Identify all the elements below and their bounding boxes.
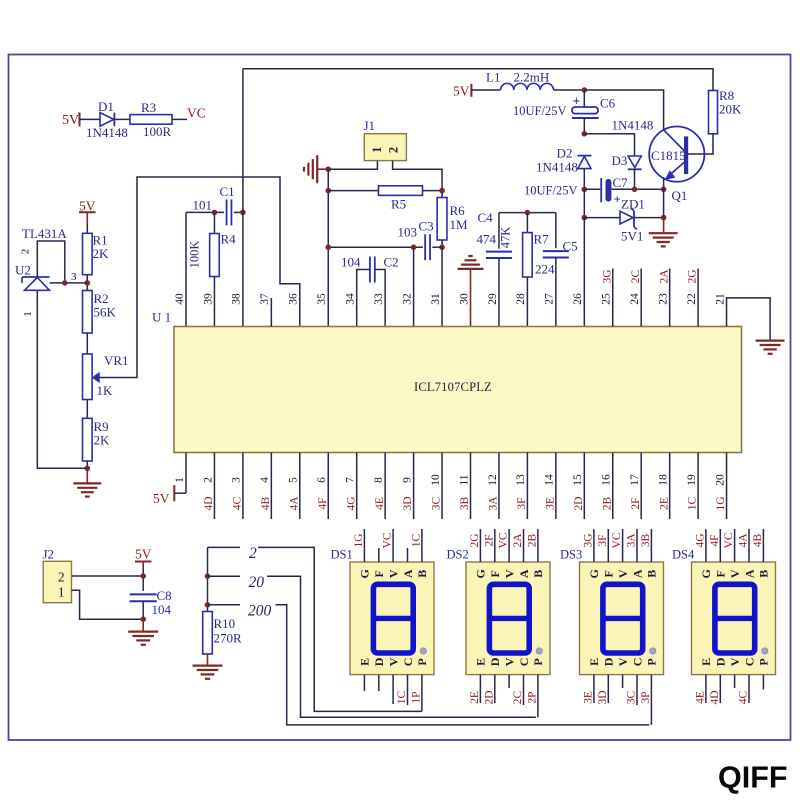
svg-text:F: F: [602, 570, 616, 577]
wire DS1 top pin F stub: [378, 548, 380, 562]
svg-text:3A: 3A: [488, 496, 500, 511]
node junction range 200: [205, 602, 211, 608]
svg-text:A: A: [630, 569, 644, 578]
svg-text:1P: 1P: [411, 691, 423, 703]
svg-text:V: V: [386, 657, 400, 666]
svg-text:DS2: DS2: [447, 548, 469, 562]
svg-text:6: 6: [316, 477, 328, 483]
svg-text:R3: R3: [141, 100, 156, 115]
svg-text:DS1: DS1: [331, 548, 353, 562]
wire pin 14 stub: [555, 453, 557, 520]
svg-text:4B: 4B: [752, 533, 764, 547]
wire DS3 top pin B: [650, 529, 652, 562]
svg-text:B: B: [757, 570, 771, 578]
svg-text:37: 37: [259, 293, 271, 305]
wire DS4 top pin B: [762, 529, 764, 562]
svg-text:103: 103: [398, 225, 418, 240]
svg-text:4G: 4G: [345, 496, 357, 510]
svg-text:3C: 3C: [626, 690, 638, 704]
wire D3 to C7 node: [634, 169, 636, 189]
wire R7 to pin 28: [526, 277, 528, 327]
svg-text:104: 104: [341, 255, 361, 270]
svg-text:25: 25: [601, 293, 613, 305]
wire VR1 to R9: [86, 400, 88, 419]
svg-text:38: 38: [231, 293, 243, 305]
svg-text:1: 1: [22, 311, 34, 317]
wire top bus from pin 38 to R8: [243, 69, 713, 91]
svg-text:D2: D2: [557, 146, 573, 161]
resistor R9: [83, 418, 93, 461]
node junction cathode/ref: [62, 280, 68, 286]
connector J2: [43, 561, 71, 602]
wire net 2 to DS1 P: [208, 546, 241, 548]
svg-text:G: G: [587, 569, 601, 578]
svg-text:12: 12: [487, 474, 499, 486]
wire pin 23 stub: [669, 269, 671, 327]
wire C6 node to Q1 collector: [584, 90, 663, 131]
svg-text:4B: 4B: [260, 496, 272, 510]
svg-text:4A: 4A: [738, 533, 750, 548]
svg-text:3P: 3P: [640, 691, 652, 703]
svg-text:1N4148: 1N4148: [536, 160, 578, 175]
svg-text:2K: 2K: [94, 433, 111, 448]
svg-text:P: P: [415, 658, 429, 665]
wire ground to pin 30: [470, 269, 472, 327]
svg-text:ZD1: ZD1: [621, 197, 645, 212]
wire DS4 top pin G: [705, 529, 707, 562]
svg-text:5V: 5V: [79, 199, 96, 214]
wire DS3 bottom pin P: [650, 675, 652, 725]
wire U2 cathode loop: [37, 241, 65, 283]
wire pin 2 stub: [213, 453, 215, 520]
wire DS1 top pin B: [421, 529, 423, 562]
svg-text:4: 4: [259, 477, 271, 483]
ground below C8: [128, 630, 158, 632]
wire J1 pin1 to ground net: [328, 161, 377, 170]
svg-text:G: G: [358, 569, 372, 578]
svg-text:2P: 2P: [527, 691, 539, 703]
svg-text:2B: 2B: [601, 496, 613, 510]
wire 5V to L1: [471, 89, 500, 91]
wire pin 4 stub: [270, 453, 272, 520]
svg-text:P: P: [531, 658, 545, 665]
svg-text:34: 34: [345, 293, 357, 305]
wire C2 to pin 33: [375, 270, 385, 327]
capacitor C6 (polarized): [572, 94, 599, 119]
wire DS1 top pin G: [363, 529, 365, 562]
capacitor C7 (polarized): [601, 178, 621, 207]
wire ground stub at J1: [317, 168, 328, 170]
svg-text:D: D: [372, 657, 386, 666]
svg-text:5V: 5V: [62, 113, 79, 128]
svg-text:V: V: [502, 657, 516, 666]
svg-text:1: 1: [58, 585, 65, 600]
wire DS1 bottom pin P: [421, 675, 423, 712]
ground above pin 30: [458, 268, 484, 270]
svg-text:5: 5: [288, 477, 300, 483]
svg-text:3F: 3F: [597, 534, 609, 546]
svg-text:C: C: [517, 658, 531, 667]
svg-text:13: 13: [515, 474, 527, 486]
wire pin 1 to 5V: [185, 453, 187, 494]
wire pin 11 stub: [470, 453, 472, 520]
capacitor C8: [130, 593, 157, 595]
svg-text:28: 28: [515, 293, 527, 305]
svg-text:4E: 4E: [695, 691, 707, 704]
capacitor C1: [226, 199, 228, 225]
wire DS1 bottom pin C: [407, 675, 409, 705]
wire U2 anode down: [37, 290, 87, 468]
wire pin 24 stub: [640, 269, 642, 327]
svg-text:16: 16: [601, 474, 613, 486]
wire DS2 bottom pin D: [494, 675, 496, 703]
wire C5 top stub: [555, 213, 557, 249]
svg-text:1: 1: [174, 477, 186, 483]
svg-text:VC: VC: [382, 532, 394, 548]
svg-text:C2: C2: [384, 255, 399, 270]
wire pin 5 stub: [299, 453, 301, 520]
svg-text:1G: 1G: [353, 533, 365, 547]
wire D1 to R3: [114, 118, 130, 120]
svg-text:27: 27: [544, 293, 556, 305]
wire DS1 bottom pin V: [392, 675, 394, 704]
display DS3 (7-segment): [580, 562, 664, 675]
node junction D3/C7: [632, 187, 638, 193]
svg-text:D: D: [602, 657, 616, 666]
wire C4 to pin 29: [498, 258, 500, 327]
wire DS4 top pin A: [748, 529, 750, 562]
svg-text:11: 11: [458, 474, 470, 485]
svg-text:1C: 1C: [396, 690, 408, 704]
ground below R10: [193, 664, 223, 666]
wire pin 40 vertical: [185, 212, 187, 326]
wire pin 10 stub: [441, 453, 443, 520]
wire DS4 bottom pin C: [748, 675, 750, 703]
wire pin 35 vertical: [327, 169, 329, 326]
svg-text:8: 8: [373, 477, 385, 483]
svg-text:2F: 2F: [630, 497, 642, 509]
wire C7 right to emitter net: [611, 188, 663, 190]
svg-text:200: 200: [248, 603, 272, 620]
svg-text:C3: C3: [419, 219, 434, 234]
svg-text:9: 9: [401, 477, 413, 483]
wire R7 top: [526, 213, 528, 233]
svg-text:3D: 3D: [402, 496, 414, 510]
wire pin 34 to C2: [357, 270, 370, 327]
resistor R3: [130, 115, 172, 125]
svg-text:F: F: [372, 570, 386, 577]
wire C5 to pin 27: [555, 258, 557, 327]
wire R10 to ground: [207, 654, 209, 666]
svg-text:4D: 4D: [203, 496, 215, 510]
resistor R2: [83, 291, 93, 334]
wire DS1 bottom pin E: [363, 675, 365, 691]
wire pin 22 stub: [697, 269, 699, 327]
wire DS2 top pin V: [508, 529, 510, 562]
wire pin 37 stub: [270, 298, 272, 327]
svg-text:2C: 2C: [630, 269, 642, 283]
wire D2 to C7 node: [583, 169, 585, 190]
wire U2 ref to R1/R2 junction: [50, 282, 88, 284]
node junction pin38/C1: [240, 210, 246, 216]
svg-text:270R: 270R: [214, 631, 243, 646]
wire integrator net top: [499, 212, 556, 214]
svg-text:22: 22: [686, 293, 698, 305]
wire VR1 wiper to pin 36: [99, 177, 300, 378]
svg-text:R5: R5: [391, 197, 406, 212]
svg-text:2G: 2G: [687, 269, 699, 283]
node junction range 20: [205, 573, 211, 579]
wire C3 right: [432, 246, 442, 248]
power 5V terminal (pin 1): [173, 485, 175, 501]
wire emitter net vertical: [663, 177, 665, 218]
capacitor C5: [543, 250, 569, 252]
wire DS1 top pin A stub: [407, 548, 409, 562]
svg-text:C: C: [401, 658, 415, 667]
svg-text:4C: 4C: [738, 690, 750, 704]
svg-text:20: 20: [714, 474, 726, 486]
node junction J1/ground/pin35: [325, 166, 331, 172]
display DS1 (7-segment): [350, 562, 434, 675]
svg-text:J1: J1: [364, 118, 376, 133]
wire C6 top stub: [583, 90, 585, 107]
svg-text:104: 104: [152, 602, 172, 617]
svg-text:3C: 3C: [431, 496, 443, 510]
svg-text:C7: C7: [613, 175, 629, 190]
wire DS4 top pin V: [734, 529, 736, 562]
inductor L1: [501, 83, 554, 90]
svg-text:R4: R4: [221, 232, 237, 247]
ground at pin 21: [756, 340, 785, 342]
svg-text:36: 36: [288, 293, 300, 305]
wire pin 6 stub: [327, 453, 329, 520]
wire ZD1 to emitter net: [634, 217, 664, 219]
node junction R6/C3/pin31: [439, 244, 445, 250]
svg-text:5V: 5V: [153, 491, 170, 506]
svg-text:2C: 2C: [512, 690, 524, 704]
svg-text:15: 15: [572, 474, 584, 486]
resistor R1: [83, 233, 93, 274]
wire C7 node to ZD1 node: [583, 189, 585, 217]
svg-text:2E: 2E: [658, 497, 670, 510]
svg-text:2B: 2B: [527, 533, 539, 547]
svg-text:2: 2: [202, 477, 214, 483]
node junction ZD1/pin26 line: [582, 215, 588, 221]
svg-text:10UF/25V: 10UF/25V: [513, 104, 566, 118]
node junction R1/R2/ref: [85, 280, 91, 286]
svg-text:V: V: [616, 569, 630, 578]
svg-text:V: V: [386, 569, 400, 578]
svg-text:1N4148: 1N4148: [612, 118, 654, 133]
wire ZD1 left: [584, 217, 620, 219]
wire pin 7 stub: [356, 453, 358, 520]
wire R5 right: [423, 190, 443, 192]
resistor R5: [379, 186, 423, 196]
svg-text:2G: 2G: [469, 533, 481, 547]
wire C1 right to pin 38: [234, 211, 243, 213]
svg-text:474: 474: [477, 232, 497, 247]
node junction R4 top: [212, 210, 218, 216]
node junction R5 left: [325, 188, 331, 194]
svg-text:101: 101: [193, 198, 213, 213]
zener diode ZD1: [620, 208, 637, 229]
wire DS4 bottom pin P: [762, 675, 764, 690]
svg-text:4C: 4C: [232, 496, 244, 510]
svg-text:3A: 3A: [626, 533, 638, 548]
svg-text:21: 21: [714, 293, 726, 305]
svg-text:C1815: C1815: [651, 148, 686, 163]
svg-text:1K: 1K: [97, 383, 114, 398]
svg-text:C5: C5: [563, 239, 578, 254]
svg-text:100K: 100K: [188, 241, 202, 269]
svg-text:19: 19: [686, 474, 698, 486]
svg-text:1C: 1C: [411, 533, 423, 547]
svg-text:E: E: [474, 658, 488, 666]
op-amp U2 TL431A shunt regulator: [22, 277, 50, 290]
wire 5V to C8 top: [142, 568, 144, 591]
svg-text:2: 2: [249, 545, 257, 562]
wire J2 pin1 to ground node: [72, 590, 144, 619]
svg-text:18: 18: [657, 474, 669, 486]
node junction L1/C6/collector: [582, 87, 588, 93]
wire 5V to D1: [80, 118, 101, 120]
svg-text:C: C: [630, 658, 644, 667]
wire pin 3 stub: [242, 453, 244, 520]
diode D1: [100, 113, 114, 127]
svg-text:C8: C8: [157, 588, 172, 603]
svg-text:E: E: [358, 658, 372, 666]
node junction R7 top: [525, 210, 531, 216]
wire DS3 bottom pin E: [593, 675, 595, 703]
wire J1 pin2 to R6 net: [393, 161, 442, 198]
svg-text:4F: 4F: [317, 497, 329, 509]
wire R6 to C3 junction: [441, 240, 443, 247]
svg-text:47K: 47K: [499, 227, 513, 249]
svg-text:3G: 3G: [601, 269, 613, 283]
wire DS2 bottom pin C: [523, 675, 525, 705]
diode D2: [578, 156, 592, 169]
svg-text:4D: 4D: [709, 690, 721, 704]
svg-text:31: 31: [430, 293, 442, 305]
svg-text:VC: VC: [187, 106, 206, 121]
svg-text:39: 39: [202, 293, 214, 305]
svg-text:2D: 2D: [573, 496, 585, 510]
wire pin 12 stub: [498, 453, 500, 520]
svg-text:3: 3: [71, 271, 77, 283]
svg-text:30: 30: [458, 293, 470, 305]
wire pin 13 stub: [526, 453, 528, 520]
svg-text:5V1: 5V1: [621, 229, 643, 244]
wire DS3 bottom pin C: [636, 675, 638, 705]
svg-text:U2: U2: [15, 263, 31, 278]
ground below R9: [73, 482, 101, 484]
svg-text:V: V: [728, 657, 742, 666]
svg-text:+: +: [573, 94, 581, 109]
svg-text:V: V: [728, 569, 742, 578]
svg-text:D1: D1: [98, 99, 114, 114]
node junction R5/R6: [439, 188, 445, 194]
svg-text:C: C: [742, 658, 756, 667]
svg-text:10: 10: [430, 474, 442, 486]
wire C3 net left: [328, 246, 423, 248]
resistor R4: [210, 234, 220, 277]
svg-text:3B: 3B: [459, 496, 471, 510]
svg-text:R6: R6: [450, 203, 466, 218]
wire L1 to C6 node: [554, 89, 585, 91]
svg-text:2F: 2F: [483, 534, 495, 546]
potentiometer VR1: [83, 354, 93, 400]
resistor R7: [523, 233, 533, 277]
svg-text:24: 24: [629, 293, 641, 305]
capacitor C2: [369, 257, 371, 283]
svg-text:F: F: [714, 570, 728, 577]
wire pin 31 vertical: [441, 247, 443, 326]
svg-text:DS4: DS4: [672, 548, 695, 562]
wire DS2 top pin B: [537, 529, 539, 562]
wire pin 8 stub: [384, 453, 386, 520]
svg-text:3D: 3D: [597, 690, 609, 704]
wire D2 node to D3: [584, 134, 634, 156]
node junction C3 net/pin35: [325, 244, 331, 250]
resistor R10: [203, 612, 213, 655]
svg-text:3F: 3F: [516, 497, 528, 509]
svg-text:A: A: [742, 569, 756, 578]
svg-text:5V: 5V: [453, 84, 470, 99]
wire 5V to R1: [86, 225, 88, 234]
wire C7 left: [584, 188, 600, 190]
wire DS2 top pin G: [479, 529, 481, 562]
wire C8 bottom to ground node: [142, 601, 144, 619]
svg-text:B: B: [645, 570, 659, 578]
display DS4 (7-segment): [692, 562, 776, 675]
wire pin 16 stub: [612, 453, 614, 520]
node junction C3 net/pin32: [411, 244, 417, 250]
wire pin 20 stub: [726, 453, 728, 520]
svg-text:B: B: [531, 570, 545, 578]
wire DS2 bottom pin E: [479, 675, 481, 703]
svg-text:2.2mH: 2.2mH: [514, 70, 550, 85]
svg-text:2K: 2K: [93, 246, 110, 261]
svg-text:33: 33: [373, 293, 385, 305]
wire R3 to VC: [172, 118, 187, 120]
svg-text:C1: C1: [220, 184, 235, 199]
wire pin 17 stub: [640, 453, 642, 520]
svg-text:D: D: [488, 657, 502, 666]
wire DS3 top pin G: [593, 529, 595, 562]
svg-text:2: 2: [386, 147, 400, 153]
svg-text:4E: 4E: [374, 497, 386, 510]
svg-text:14: 14: [544, 474, 556, 486]
svg-text:2: 2: [20, 249, 32, 255]
svg-text:3E: 3E: [583, 691, 595, 704]
svg-text:4G: 4G: [695, 533, 707, 547]
svg-text:23: 23: [657, 293, 669, 305]
svg-text:L1: L1: [486, 70, 500, 85]
wire DS3 top pin A: [636, 529, 638, 562]
svg-text:4F: 4F: [709, 534, 721, 546]
svg-text:VC: VC: [611, 532, 623, 548]
svg-text:10UF/25V: 10UF/25V: [524, 184, 577, 198]
svg-text:P: P: [645, 658, 659, 665]
svg-text:D: D: [714, 657, 728, 666]
svg-text:5V: 5V: [135, 547, 152, 562]
svg-text:3G: 3G: [583, 533, 595, 547]
node junction R9/U2 anode: [85, 466, 91, 472]
wire net 20 to DS2 P: [208, 575, 241, 577]
svg-text:1G: 1G: [715, 496, 727, 510]
svg-text:F: F: [488, 570, 502, 577]
svg-text:3: 3: [231, 477, 243, 483]
